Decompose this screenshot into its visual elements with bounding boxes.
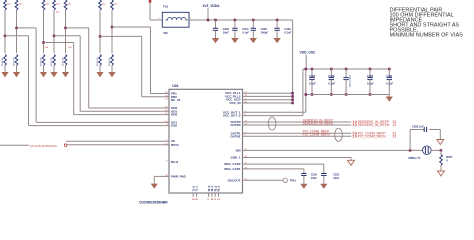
- svg-text:OD0: OD0: [171, 113, 178, 117]
- svg-text:240: 240: [19, 4, 23, 6]
- svg-text:10uF: 10uF: [333, 176, 339, 180]
- svg-text:C408: C408: [328, 74, 335, 78]
- svg-text:C400: C400: [367, 74, 374, 78]
- svg-text:0.1uF: 0.1uF: [242, 30, 249, 34]
- svg-text:VDD_OSC: VDD_OSC: [300, 51, 317, 55]
- svg-text:PCI_CONN_REFN: PCI_CONN_REFN: [303, 133, 331, 137]
- svg-text:OS0: OS0: [171, 124, 177, 128]
- svg-text:C403: C403: [284, 27, 291, 31]
- svg-text:8: 8: [166, 161, 168, 163]
- svg-text:RL:3: RL:3: [218, 185, 221, 191]
- svg-text:240: 240: [46, 4, 50, 6]
- svg-text:C218: C218: [223, 27, 230, 31]
- svg-text:240: 240: [114, 4, 118, 6]
- svg-text:25MHz Y5: 25MHz Y5: [408, 156, 421, 160]
- svg-text:U26: U26: [172, 84, 178, 88]
- svg-text:C220: C220: [311, 173, 318, 177]
- svg-text:240: 240: [56, 4, 60, 6]
- svg-text:CDCM61002RHBR: CDCM61002RHBR: [139, 200, 168, 204]
- svg-text:24: 24: [393, 123, 397, 127]
- svg-text:R240 1K: R240 1K: [14, 57, 16, 66]
- svg-text:NC:8: NC:8: [171, 160, 178, 164]
- svg-text:140: 140: [45, 47, 49, 49]
- svg-text:VCC_IN: VCC_IN: [229, 101, 240, 105]
- svg-text:0.1uF: 0.1uF: [309, 81, 316, 85]
- svg-text:C404: C404: [242, 27, 249, 31]
- svg-text:PWR_PAD: PWR_PAD: [171, 174, 187, 178]
- svg-text:C406: C406: [309, 74, 316, 78]
- svg-text:R257: R257: [446, 155, 453, 159]
- svg-text:24: 24: [165, 99, 168, 101]
- svg-text:C417 0.1uF: C417 0.1uF: [348, 75, 351, 88]
- svg-text:0.1uF: 0.1uF: [328, 81, 335, 85]
- svg-text:240: 240: [68, 4, 72, 6]
- svg-text:0.1uF: 0.1uF: [284, 30, 291, 34]
- svg-text:12: 12: [217, 199, 220, 201]
- svg-text:VCC_OUT_2: VCC_OUT_2: [223, 114, 241, 118]
- svg-text:OSCOUT: OSCOUT: [228, 178, 241, 182]
- svg-text:5,6,11,15,32 RSTOUTn: 5,6,11,15,32 RSTOUTn: [30, 144, 58, 148]
- svg-text:REG_CAP2: REG_CAP2: [224, 162, 241, 166]
- svg-text:20: 20: [195, 199, 198, 201]
- svg-text:PCI_CONN_REFN: PCI_CONN_REFN: [358, 135, 386, 139]
- svg-text:FL8: FL8: [163, 4, 168, 8]
- svg-text:TL:1: TL:1: [196, 185, 199, 191]
- svg-text:SERDES0_IN_REFN: SERDES0_IN_REFN: [303, 121, 334, 125]
- svg-text:R240 1K: R240 1K: [97, 57, 99, 66]
- svg-text:10uF: 10uF: [311, 176, 317, 180]
- svg-text:R240 1K: R240 1K: [63, 57, 65, 66]
- svg-text:0.1uF: 0.1uF: [386, 81, 393, 85]
- svg-text:9: 9: [207, 199, 209, 201]
- svg-text:NC_24: NC_24: [171, 98, 181, 102]
- svg-text:REG_CAP1: REG_CAP1: [224, 167, 241, 171]
- svg-text:OUTN1: OUTN1: [230, 134, 240, 138]
- svg-text:100pF: 100pF: [261, 30, 269, 34]
- svg-text:3V3_VDDA: 3V3_VDDA: [203, 4, 221, 8]
- svg-text:240: 240: [7, 4, 11, 6]
- svg-text:MINIMUM NUMBER OF VIAS: MINIMUM NUMBER OF VIAS: [390, 33, 464, 39]
- svg-text:0: 0: [446, 159, 448, 163]
- svg-text:R240 1K: R240 1K: [109, 57, 111, 66]
- svg-text:GND_1: GND_1: [230, 156, 240, 160]
- svg-text:W2: W2: [164, 31, 169, 35]
- svg-text:XIN: XIN: [235, 148, 240, 152]
- svg-text:C221: C221: [333, 173, 340, 177]
- svg-text:SERDES0_IN_REFN: SERDES0_IN_REFN: [358, 123, 390, 127]
- svg-text:RSTn: RSTn: [171, 143, 179, 147]
- svg-text:OUTN0: OUTN0: [230, 123, 240, 127]
- svg-text:240: 240: [56, 12, 60, 14]
- svg-text:R240 1K: R240 1K: [2, 57, 4, 66]
- svg-text:TP61: TP61: [290, 179, 297, 183]
- svg-text:10uF: 10uF: [223, 30, 229, 34]
- svg-text:R240 1K: R240 1K: [51, 57, 53, 66]
- svg-text:140: 140: [68, 47, 72, 49]
- svg-text:0.1uF: 0.1uF: [367, 81, 374, 85]
- svg-text:R240 1K: R240 1K: [41, 57, 43, 66]
- svg-text:C401: C401: [386, 74, 393, 78]
- svg-text:C405: C405: [261, 27, 268, 31]
- svg-text:33: 33: [393, 135, 397, 139]
- svg-text:240: 240: [102, 4, 106, 6]
- svg-text:C280 1nF: C280 1nF: [412, 125, 424, 129]
